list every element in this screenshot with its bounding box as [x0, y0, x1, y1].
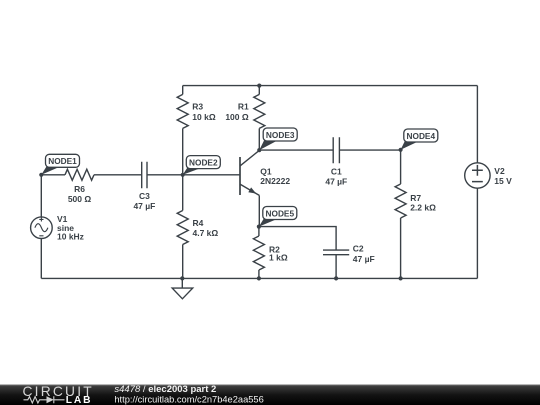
wire V1 top lead [40, 175, 42, 217]
svg-text:4.7 kΩ: 4.7 kΩ [193, 228, 219, 238]
wire R7 to ground rail [400, 218, 402, 278]
wire right rail V2 top [476, 86, 478, 163]
svg-text:100 Ω: 100 Ω [225, 112, 249, 122]
wire C1 to node4 [339, 149, 400, 151]
svg-text:NODE4: NODE4 [407, 131, 436, 141]
wire R1 to node3 [258, 128, 260, 150]
capacitor C2 [323, 250, 349, 255]
wire right rail V2 bottom [476, 188, 478, 278]
wire bottom ground rail [41, 277, 477, 279]
wire V1 bottom lead [40, 239, 42, 279]
resistor R2 [253, 236, 264, 270]
label Q1 value [260, 167, 290, 186]
resistor R7 [395, 184, 406, 218]
svg-text:NODE5: NODE5 [266, 208, 295, 218]
wire C3 to node2 [147, 174, 183, 176]
resistor R4 [177, 211, 188, 245]
label R3 value [192, 102, 216, 122]
label V1 value [57, 214, 84, 241]
label C1 value [325, 166, 347, 186]
ground [172, 278, 193, 298]
wire node4 to R7 [400, 150, 402, 184]
svg-text:47 µF: 47 µF [353, 254, 375, 264]
svg-text:R1: R1 [238, 102, 249, 112]
wire top rail to R3 [182, 86, 184, 95]
junction top rail / R1 [257, 84, 261, 88]
resistor R3 [177, 94, 188, 128]
label C3 value [133, 191, 155, 211]
svg-text:2N2222: 2N2222 [260, 176, 290, 186]
svg-text:s4478 / elec2003 part 2: s4478 / elec2003 part 2 [114, 384, 216, 395]
svg-text:10 kHz: 10 kHz [57, 231, 84, 241]
CircuitLab logo [23, 384, 94, 405]
capacitor C1 [333, 137, 339, 163]
junction ground rail / R2 [257, 276, 261, 280]
label C2 value [353, 244, 375, 264]
junction node2 [181, 173, 185, 177]
wire node5 to C2 [259, 227, 336, 251]
svg-text:R3: R3 [192, 102, 203, 112]
svg-text:C3: C3 [139, 191, 150, 201]
svg-text:R7: R7 [410, 193, 421, 203]
voltage source V2 (15 V DC) [465, 163, 490, 188]
svg-text:47 µF: 47 µF [133, 201, 155, 211]
voltage source V1 (sine) [31, 217, 53, 239]
node NODE1 [41, 154, 79, 175]
svg-text:http://circuitlab.com/c2n7b4e2: http://circuitlab.com/c2n7b4e2aa556 [114, 394, 263, 404]
label R1 value [225, 102, 249, 122]
svg-text:10 kΩ: 10 kΩ [192, 112, 216, 122]
svg-text:C2: C2 [353, 244, 364, 254]
label R4 value [193, 218, 219, 238]
label R6 value [68, 184, 92, 204]
wire Q1 emitter to node5 [258, 195, 260, 226]
svg-text:NODE3: NODE3 [266, 130, 295, 140]
wire R2 to node5 [258, 227, 260, 236]
junction ground rail / R7 [399, 276, 403, 280]
wire R2 to ground rail [258, 270, 260, 278]
footer bar [0, 385, 540, 405]
junction ground rail / R4 [180, 276, 184, 280]
wire R6 to C3 [94, 174, 142, 176]
wire C2 to ground rail [335, 255, 337, 279]
svg-text:500 Ω: 500 Ω [68, 194, 92, 204]
wire node2 to Q1 base [183, 174, 240, 176]
svg-text:R4: R4 [193, 218, 204, 228]
svg-text:NODE1: NODE1 [48, 156, 77, 166]
node NODE5 [259, 207, 297, 227]
node NODE4 [401, 129, 438, 150]
wire node3 to C1 [259, 149, 333, 151]
junction node3 [257, 148, 261, 152]
wire top rail to R1 [258, 86, 260, 95]
svg-text:NODE2: NODE2 [189, 157, 218, 167]
junction node5 [257, 225, 261, 229]
svg-text:15 V: 15 V [494, 176, 512, 186]
junction node4 [399, 148, 403, 152]
junction ground rail / C2 [334, 276, 338, 280]
svg-text:V2: V2 [494, 166, 505, 176]
resistor R6 [65, 169, 94, 180]
label R7 value [410, 193, 436, 213]
svg-text:2.2 kΩ: 2.2 kΩ [410, 203, 436, 213]
junction node1 [39, 173, 43, 177]
wire top supply rail [183, 85, 478, 87]
svg-text:R6: R6 [74, 184, 85, 194]
label V2 value [494, 166, 512, 186]
label R2 value [269, 244, 288, 262]
svg-text:LAB: LAB [66, 395, 93, 405]
wire node1 to R6 [41, 174, 65, 176]
wire R3 to node2 [182, 128, 184, 174]
node NODE2 [183, 156, 221, 175]
svg-text:C1: C1 [331, 166, 342, 176]
resistor R1 [254, 94, 265, 128]
wire node2 to R4 [182, 175, 184, 211]
wire R4 to ground rail [182, 245, 184, 279]
capacitor C3 [142, 162, 147, 189]
svg-text:47 µF: 47 µF [325, 176, 347, 186]
svg-text:1 kΩ: 1 kΩ [269, 252, 288, 262]
node NODE3 [259, 128, 297, 150]
transistor Q1 (2N2222 NPN) [240, 150, 259, 195]
